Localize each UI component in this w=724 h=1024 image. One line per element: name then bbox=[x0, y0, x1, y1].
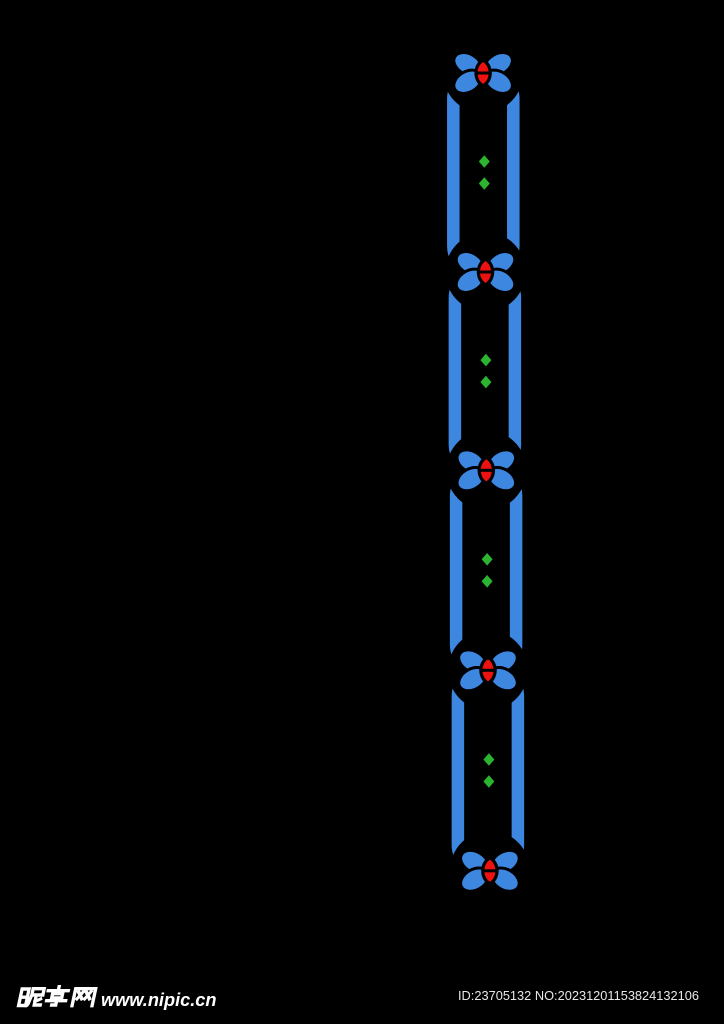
petal bbox=[483, 445, 519, 478]
red vesica center bbox=[479, 458, 493, 484]
diamond pair segment 4 bbox=[483, 753, 494, 788]
diamond pair segment 3 bbox=[482, 553, 493, 588]
petal bbox=[487, 863, 523, 896]
petal bbox=[452, 247, 488, 280]
segment frame 1 bbox=[453, 73, 513, 272]
diamond pair segment 2 bbox=[480, 354, 491, 389]
char wang bbox=[72, 989, 96, 1006]
petal bbox=[455, 663, 491, 696]
segment frame 4 bbox=[458, 670, 518, 871]
red vesica center bbox=[476, 60, 490, 86]
node mask 4 bbox=[448, 630, 528, 710]
red vesica center bbox=[481, 658, 495, 684]
petal bbox=[453, 445, 489, 478]
segment frame 2 bbox=[455, 272, 515, 470]
petal bbox=[456, 863, 492, 896]
petal bbox=[485, 663, 521, 696]
petal bbox=[455, 645, 491, 678]
petal bbox=[456, 846, 492, 879]
petal bbox=[480, 65, 516, 98]
char ni bbox=[19, 989, 45, 1006]
petal bbox=[485, 645, 521, 678]
node mask 5 bbox=[450, 831, 530, 911]
petal bbox=[487, 846, 523, 879]
segment frame 3 bbox=[456, 470, 516, 670]
petal bbox=[450, 65, 486, 98]
flower 1 bbox=[450, 48, 517, 98]
svg-text:ID:23705132 NO:202312011538241: ID:23705132 NO:20231201153824132106 bbox=[458, 988, 699, 1003]
svg-text:www.nipic.cn: www.nipic.cn bbox=[101, 990, 217, 1010]
red vesica center bbox=[478, 259, 492, 285]
flower 5 bbox=[456, 846, 523, 896]
flower 4 bbox=[455, 645, 522, 695]
petal bbox=[453, 463, 489, 496]
petal bbox=[450, 48, 486, 81]
petal bbox=[483, 463, 519, 496]
red vesica center bbox=[483, 858, 497, 884]
watermark logo: nizhang characters bbox=[19, 987, 97, 1006]
petal bbox=[452, 264, 488, 297]
flower 2 bbox=[452, 247, 519, 297]
diamond pair segment 1 bbox=[479, 155, 490, 190]
node mask 1 bbox=[443, 33, 523, 113]
char xiang bbox=[45, 987, 69, 1005]
petal bbox=[480, 48, 516, 81]
petal bbox=[483, 264, 519, 297]
flower 3 bbox=[453, 445, 520, 495]
node mask 2 bbox=[446, 232, 526, 312]
node mask 3 bbox=[446, 430, 526, 510]
petal bbox=[483, 247, 519, 280]
